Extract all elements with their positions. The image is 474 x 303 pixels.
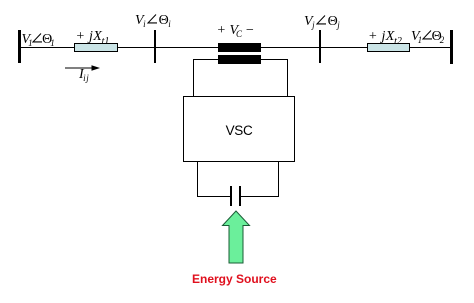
- wire main transmission line: [20, 47, 451, 48]
- label +jXt1: [76, 30, 110, 44]
- label V1 angle Theta1 (left): [22, 33, 55, 47]
- capacitor C series top plate: [218, 43, 261, 52]
- wire lower right vertical: [278, 162, 279, 196]
- label +jXt2: [368, 30, 402, 44]
- capacitor Cdc right plate: [239, 186, 241, 206]
- capacitor Cdc left plate: [230, 186, 232, 206]
- capacitor C series bottom plate: [218, 55, 261, 64]
- node bus i: [154, 30, 156, 63]
- current arrow Iij: [63, 62, 103, 74]
- converter U1 VSC box: [183, 96, 295, 162]
- wire capacitor frame top-right: [261, 59, 287, 60]
- wire lower left vertical: [197, 162, 198, 196]
- wire frame left vertical: [193, 59, 194, 97]
- label V1 angle Theta2 (right): [411, 30, 444, 44]
- label Vj angle Thetaj: [304, 15, 340, 29]
- label +Vc- above series capacitor: [217, 24, 255, 38]
- reactance Xt1: [74, 43, 118, 52]
- wire lower bottom right: [241, 196, 279, 197]
- node bus 1 (left terminal bar): [18, 30, 21, 63]
- energy source arrow: [219, 209, 253, 265]
- label Energy Source: [192, 272, 277, 286]
- label Iij: [79, 68, 89, 82]
- wire frame right vertical: [287, 59, 288, 97]
- label Vi angle Thetai: [135, 14, 171, 28]
- reactance Xt2: [367, 43, 410, 52]
- node bus 2 (right terminal bar): [450, 30, 453, 64]
- wire capacitor frame top-left: [193, 59, 218, 60]
- wire lower bottom left: [197, 196, 230, 197]
- node bus j: [319, 30, 321, 63]
